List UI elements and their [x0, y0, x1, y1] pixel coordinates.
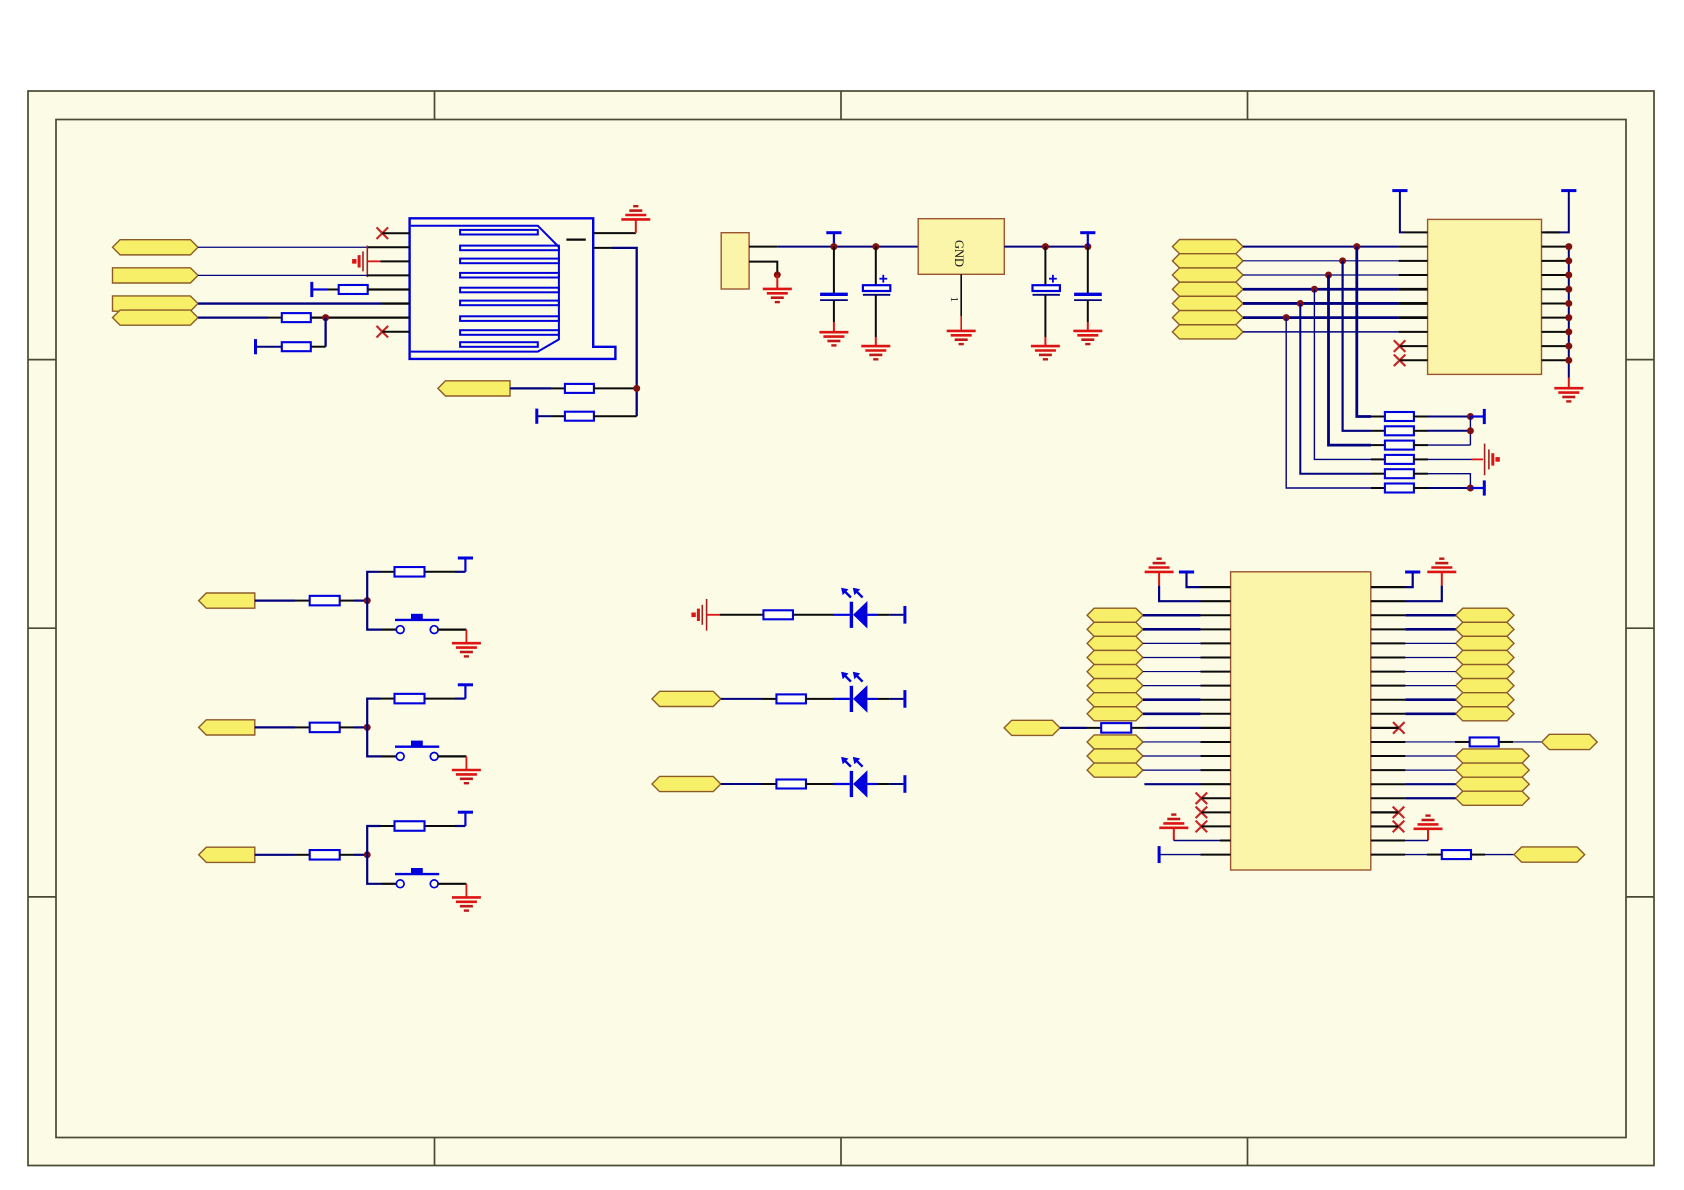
U3 right pin 14 [1371, 769, 1406, 771]
wire button 3 b [354, 854, 367, 856]
port U2 net 3 [1172, 268, 1243, 282]
wire U3 R5 [1405, 642, 1455, 644]
no-connect X U3 right pin 17 [1393, 807, 1405, 819]
port U3 right net 1 [1456, 608, 1514, 622]
power port bar RN top [1470, 409, 1484, 424]
power port bar button 2 [458, 685, 473, 699]
U3 right pin 11 [1371, 727, 1399, 729]
resistor RN3 [1385, 441, 1414, 450]
U2 right pin 5 [1542, 288, 1569, 290]
LED 2 left wire [721, 698, 762, 700]
junction U2 net 2 [1339, 257, 1346, 264]
port U3 right net 8 [1456, 707, 1514, 721]
wire U3 R14 [1405, 769, 1455, 771]
ground stem button 1 [465, 630, 467, 643]
RN resistor 4 left lead [1371, 458, 1385, 460]
junction button 1 [364, 597, 371, 604]
no-connect X U3 left pin 16 [1196, 792, 1208, 804]
power port bar at R3 [254, 339, 257, 354]
junction U2 net 5 [1297, 300, 1304, 307]
wire U3 R1 [1405, 572, 1413, 587]
signal ground RN4 [1485, 444, 1500, 476]
wire button 2 b [354, 726, 367, 728]
R17 right lead [1499, 741, 1513, 743]
port U2 net 6 [1172, 311, 1243, 325]
ground above U3 left [1145, 559, 1174, 572]
R3 right lead [311, 346, 326, 348]
port LED net 3 [652, 776, 721, 791]
wire U3 R13 [1405, 755, 1455, 757]
U2 left pin 5 [1399, 288, 1428, 291]
R18 left lead [1427, 854, 1442, 856]
U3 right pin 13 [1371, 755, 1406, 757]
power port bar button 3 [458, 812, 473, 826]
resistor R14 [776, 780, 806, 789]
resistor R2 [282, 313, 311, 322]
U2 left pin 8 [1399, 331, 1428, 333]
ground stem U3 top-right [1441, 572, 1443, 586]
wire U3 L13 [1143, 755, 1201, 757]
wire U3 L12 [1143, 741, 1201, 743]
wire U3 L15 stub [1144, 783, 1200, 785]
U3 right pin 4 [1371, 628, 1406, 630]
wire U3 L3 [1143, 614, 1201, 617]
wire U3 L8 [1143, 685, 1201, 687]
U3 left pin 16 [1201, 797, 1230, 799]
U3 left pin 17 [1201, 811, 1230, 813]
wire SD net 2 [198, 274, 368, 276]
U2 right pin 6 [1542, 302, 1569, 304]
J2 pin 2 [749, 262, 777, 275]
ground stem button 2 [465, 756, 467, 769]
switch S2 right lead [438, 755, 466, 757]
U3 right pin 6 [1371, 656, 1406, 658]
U3 right pin 9 [1371, 699, 1406, 701]
wire SD net 3 [198, 302, 381, 304]
U2 right pin 7 [1542, 317, 1569, 319]
wire LED D3 cathode side [867, 783, 903, 785]
wire U3 R12 [1405, 741, 1455, 743]
resistor RN6 [1385, 484, 1414, 493]
port U3 right net 12 [1456, 791, 1530, 805]
port U3 left net 11 [1087, 763, 1143, 777]
junction J2 ground [774, 271, 781, 278]
port U3 left net 2 [1087, 622, 1143, 636]
wire U3 L6 [1143, 656, 1201, 658]
no-connect X U2 pin 9 [1394, 340, 1406, 352]
resistor RN5 [1385, 469, 1414, 478]
wire U3 L11 b [1146, 727, 1201, 729]
R16 right lead [1132, 727, 1147, 729]
port U3 right net 7 [1456, 693, 1514, 707]
wire U3 R9 [1405, 698, 1455, 701]
U2 left pin 7 [1399, 316, 1428, 319]
ground stem U3 top-left [1158, 572, 1160, 586]
resistor R17 [1470, 737, 1499, 746]
power port bar U3 L20 [1158, 846, 1161, 863]
port U2 net 2 [1172, 254, 1243, 268]
SD pin 6 [381, 302, 410, 304]
junction U2 right pin 10 [1565, 357, 1572, 364]
wire button 1 up [367, 572, 380, 601]
wire U3 R7 [1405, 671, 1455, 673]
RN resistor 3 left lead [1371, 444, 1385, 446]
junction button 3 [364, 851, 371, 858]
port SD net 1 [113, 240, 199, 255]
U3 right pin 15 [1371, 783, 1406, 785]
R7 right lead [340, 726, 354, 728]
U2 left pin 4 [1399, 274, 1428, 276]
wire U2 net 5 [1243, 302, 1399, 305]
R5 left wire [537, 415, 552, 417]
signal ground LED 1 [691, 599, 706, 631]
resistor RN1 [1385, 412, 1414, 421]
U3 left pin 4 [1201, 628, 1231, 630]
resistor R5 [310, 596, 340, 606]
port U3 right net 3 [1456, 636, 1514, 650]
RN3 right wire [1428, 444, 1470, 446]
RN resistor 2 left lead [1371, 430, 1385, 432]
port U3 right net 4 [1456, 650, 1514, 664]
wire U2 net 2 [1243, 260, 1399, 262]
junction at C3 [1042, 243, 1049, 250]
wire U2 net 1 [1243, 246, 1399, 248]
SD pin 5 lead [328, 288, 339, 290]
SD write-protect mark [566, 239, 585, 241]
U3 left pin 2 [1201, 600, 1231, 602]
RN resistor 5 right lead [1414, 473, 1428, 475]
U3 left pin 7 [1201, 671, 1231, 673]
polar capacitor C3 [1033, 247, 1060, 346]
U3 right pin 17 [1371, 811, 1399, 813]
wire U3 L9 [1143, 698, 1201, 701]
power connector J2 [721, 233, 749, 289]
switch S1 left lead [382, 628, 396, 630]
R18 right lead [1471, 854, 1485, 856]
R5 right lead [340, 600, 354, 602]
wire button 2 pullup [455, 697, 465, 699]
port U2 net 1 [1172, 240, 1243, 254]
port U3 left net 10 [1087, 749, 1143, 763]
wire net 3 to RN [1329, 275, 1372, 445]
ground below C1 [819, 332, 848, 345]
wire button 2 up [367, 699, 380, 728]
ground button 2 [452, 770, 481, 783]
SD pin 4 [368, 274, 410, 276]
port U3 right net 11 [1456, 777, 1530, 791]
power port bar LED 2 [903, 690, 906, 708]
switch S2 left lead [382, 755, 396, 757]
wire LED D2 cathode side [867, 698, 903, 700]
wire U2 right pin1 [1545, 191, 1569, 233]
no-connect X U2 pin 10 [1394, 354, 1406, 366]
power port bar above U2 left [1392, 189, 1407, 192]
ground stem U3 R19 [1427, 829, 1429, 841]
U3 right pin 1 [1371, 586, 1405, 588]
R8 right lead [425, 698, 455, 700]
port U3 right net 5 [1456, 665, 1514, 679]
junction U2 net 3 [1325, 272, 1332, 279]
U3 right pin 7 [1371, 671, 1406, 673]
wire U3 L14 [1143, 769, 1201, 771]
RN resistor 5 left lead [1371, 473, 1385, 475]
port U3 right net 10 [1456, 763, 1530, 777]
wire U3 R2 [1405, 586, 1442, 602]
resistor R8 [395, 694, 425, 704]
U3 right pin 19 [1371, 840, 1405, 842]
RN4 red stub [1472, 458, 1484, 460]
resistor RN2 [1385, 426, 1414, 435]
ground below U2 bus [1554, 388, 1583, 401]
RN1 right wire [1428, 416, 1470, 418]
U3 left pin 13 [1201, 755, 1231, 757]
chip U2 [1428, 219, 1542, 374]
junction U2 right pin 7 [1565, 314, 1572, 321]
RN resistor 4 right lead [1414, 458, 1428, 460]
RN resistor 6 left lead [1371, 487, 1385, 489]
ground below C3 [1031, 346, 1060, 359]
U2 right ground bus [1568, 247, 1570, 378]
port U3 left net 4 [1087, 650, 1143, 664]
U3 right pin 2 [1371, 600, 1405, 602]
U2 left pin 6 [1399, 302, 1428, 305]
R11 right lead [793, 614, 833, 616]
port U3 right far net 2 [1514, 847, 1585, 862]
port U3 left net 3 [1087, 636, 1143, 650]
RN tie 1-3 [1469, 417, 1471, 446]
U2 left pin 9 [1400, 345, 1428, 347]
wire button 1 down [367, 601, 382, 630]
R14 right lead [806, 783, 833, 785]
svg-text:GND: GND [952, 240, 966, 267]
U2 left pin 1 [1404, 231, 1428, 233]
SD right pin A [593, 232, 636, 234]
power port bar U3 top-right [1405, 571, 1420, 574]
U2 right pin 4 [1542, 274, 1569, 276]
U2 right pin 3 [1542, 260, 1569, 262]
R6 left lead [381, 571, 395, 573]
junction at C4 [1084, 243, 1091, 250]
U3 right pin 8 [1371, 685, 1406, 687]
wire button 1 b [354, 599, 367, 601]
wire net 1 to RN [1357, 247, 1371, 417]
R10 left lead [381, 825, 395, 827]
wire U3 R19 [1405, 840, 1428, 842]
SD pin 5 [368, 288, 410, 290]
R6 right lead [425, 571, 455, 573]
U3 left pin 9 [1201, 699, 1231, 701]
port button net 2 [199, 720, 255, 735]
power port bar LED 1 [903, 606, 906, 624]
J2 pin 1 [749, 246, 777, 248]
wire U3 L10 [1143, 713, 1201, 716]
ground above SD [621, 206, 650, 219]
R4 right lead [594, 387, 637, 389]
port U3 left net 5 [1087, 665, 1143, 679]
wire button 1 pullup [455, 571, 465, 573]
no-connect X U3 left pin 18 [1196, 821, 1208, 833]
stub SD pin 3 [367, 260, 380, 262]
wire U3 R6 [1405, 656, 1455, 658]
switch S1 right lead [438, 628, 466, 630]
R9 right lead [340, 854, 354, 856]
wire LED D1 cathode side [867, 614, 903, 616]
junction U2 right pin 5 [1565, 286, 1572, 293]
R5 left lead [295, 600, 309, 602]
LED D2 anode lead [833, 698, 850, 700]
U3 left pin 11 [1201, 727, 1231, 729]
port U2 net 4 [1172, 282, 1243, 296]
U3 right pin 10 [1371, 713, 1406, 715]
LED 1 left wire [720, 614, 764, 616]
wire button 2 a [255, 726, 295, 728]
junction U2 right pin 2 [1565, 243, 1572, 250]
wire button 1 a [255, 599, 295, 601]
port U3 far-left net [1004, 720, 1060, 735]
wire U3 L2 [1159, 586, 1200, 602]
resistor R1 [339, 285, 368, 294]
wire U3 R4 [1405, 628, 1455, 631]
port U3 left net 9 [1087, 735, 1143, 749]
U2 left pin 10 [1400, 359, 1428, 361]
LED D1 anode lead [833, 614, 850, 616]
resistor RN4 [1385, 455, 1414, 464]
R3 left wire [256, 346, 282, 348]
port SD net 4 [113, 310, 199, 325]
wire U2 net 4 [1243, 288, 1399, 291]
resistor R9 [310, 850, 340, 860]
U2 right pin 2 [1542, 246, 1569, 248]
U3 left pin 18 [1201, 825, 1230, 827]
RN resistor 6 right lead [1414, 487, 1428, 489]
wire U2 pin1 left [1400, 191, 1404, 233]
resistor R11 [763, 610, 793, 619]
wire U3 R10 [1405, 713, 1455, 716]
U2 left pin 3 [1399, 260, 1428, 262]
SD pin 8 [382, 331, 409, 333]
U3 left pin 19 [1220, 840, 1231, 842]
U3 right pin 3 [1371, 614, 1406, 616]
resistor R10 [395, 821, 425, 831]
junction U2 right pin 3 [1565, 257, 1572, 264]
junction U2 right pin 9 [1565, 343, 1572, 350]
wire U3 R20 [1405, 854, 1427, 856]
RN4 right wire [1428, 458, 1472, 460]
stub LED 1 [707, 614, 720, 616]
wire U3 R12 b [1513, 741, 1542, 743]
wire U2 net 7 [1243, 331, 1399, 333]
LED D3 anode lead [833, 783, 850, 785]
wire button 3 a [255, 854, 295, 856]
wire U3 L1 [1187, 572, 1201, 587]
no-connect X U3 right pin 11 [1393, 722, 1405, 734]
main supply wire [777, 246, 918, 248]
ground above U3 right pin 19 [1414, 816, 1443, 829]
ground below regulator [947, 331, 976, 344]
ground below C4 [1073, 331, 1102, 344]
R4 left lead [551, 387, 565, 389]
resistor R3 [282, 342, 311, 351]
U3 left pin 8 [1201, 685, 1231, 687]
port button net 3 [199, 847, 255, 862]
wire SD net 1 [198, 246, 368, 248]
wire SD net 4 [198, 316, 268, 318]
junction at C2 [872, 243, 879, 250]
junction U2 net 1 [1353, 243, 1360, 250]
R14 left lead [762, 783, 776, 785]
junction on SD pin 7 [322, 314, 329, 321]
R13 right lead [806, 698, 833, 700]
ground below C2 [861, 346, 890, 359]
junction at C1 [830, 243, 837, 250]
power port bar LED 3 [903, 775, 906, 793]
resistor R13 [776, 694, 806, 703]
resistor R6 [395, 567, 425, 577]
R10 right lead [425, 825, 455, 827]
ground button 1 [452, 643, 481, 656]
wire U3 L11 a [1060, 727, 1087, 729]
U2 right pin 9 [1542, 345, 1569, 347]
wire U3 L20 [1159, 854, 1200, 856]
port U3 left net 8 [1087, 707, 1143, 721]
port LED net 2 [652, 691, 721, 706]
U3 right pin 18 [1371, 825, 1399, 827]
wire net 4 to RN [1314, 289, 1371, 459]
polar capacitor C2 [863, 247, 890, 346]
junction U2 net 4 [1311, 286, 1318, 293]
U3 left pin 14 [1201, 769, 1231, 771]
power port bar at R5 [535, 409, 538, 424]
port U3 right net 6 [1456, 679, 1514, 693]
port U2 net 5 [1172, 296, 1243, 310]
signal ground on SD pin 3 [352, 246, 367, 278]
wire button 3 down [367, 855, 382, 884]
power port bar above U2 right [1561, 189, 1576, 192]
port U3 left net 7 [1087, 693, 1143, 707]
switch S3 right lead [438, 883, 466, 885]
LED D2 [841, 672, 867, 713]
SD card contact fingers [460, 230, 559, 347]
resistor R18 [1442, 850, 1471, 859]
wire button 3 up [367, 826, 380, 855]
wire U3 L7 [1143, 671, 1201, 673]
wire U2 net 6 [1243, 316, 1399, 319]
ground stem U2 bus [1568, 378, 1570, 389]
U2 right pin 8 [1542, 331, 1569, 333]
ground button 3 [452, 897, 481, 910]
ground stem J2 [776, 275, 778, 289]
SD pin 7 [311, 316, 410, 318]
U2 left pin 2 [1399, 246, 1428, 248]
junction U2 net 6 [1283, 314, 1290, 321]
ground above U3 left pin 19 [1159, 815, 1188, 828]
regulator output wire [1004, 246, 1088, 248]
U3 left pin 5 [1201, 642, 1231, 644]
no-connect X on SD pin 8 [377, 326, 389, 338]
svg-text:1: 1 [948, 297, 960, 303]
junction U2 right pin 4 [1565, 272, 1572, 279]
RN5 right wire [1428, 474, 1470, 488]
R13 left lead [762, 698, 776, 700]
power port bar VIN [826, 233, 841, 247]
U2 right pin 10 [1542, 359, 1569, 361]
wire U3 R20 b [1485, 854, 1514, 856]
junction button 2 [364, 724, 371, 731]
wire U3 R15 [1405, 783, 1455, 785]
RN2 right wire [1428, 430, 1470, 432]
U3 left pin 10 [1201, 713, 1231, 715]
junction RN6 [1467, 485, 1474, 492]
